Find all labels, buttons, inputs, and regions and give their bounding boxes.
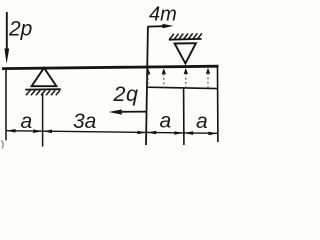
upper support hatch line (169, 38, 202, 41)
beam (2, 66, 219, 68)
scan noise bottom-left (1, 141, 3, 149)
load arrow 2 (162, 68, 166, 87)
svg-text:a: a (160, 109, 172, 132)
load arrow 4 (206, 68, 210, 89)
force 2P arrow (4, 12, 9, 64)
svg-text:4m: 4m (149, 3, 177, 25)
upper support triangle (175, 43, 196, 63)
svg-text:3a: 3a (73, 110, 96, 133)
hatching A (26, 90, 60, 95)
svg-text:a: a (21, 110, 33, 133)
dimension line (6, 131, 218, 134)
distributed load lower line (147, 87, 218, 88)
post (vertical lever through beam) (146, 27, 148, 145)
force 2q arm (109, 109, 147, 114)
load arrow 1 (146, 68, 150, 87)
svg-text:2p: 2p (8, 17, 32, 40)
load arrow 3 (184, 68, 188, 88)
moment 4m arm (148, 24, 174, 28)
ground line A (25, 88, 60, 90)
right end vertical (217, 67, 219, 142)
svg-text:2q: 2q (113, 82, 139, 106)
svg-text:a: a (196, 110, 208, 133)
upper support hatching (170, 33, 202, 39)
extension line under support A (42, 93, 44, 147)
extension line left end (5, 70, 7, 140)
pin support A triangle (32, 68, 57, 86)
dim arrowheads (6, 129, 217, 135)
mid vertical under triangle (183, 88, 185, 145)
